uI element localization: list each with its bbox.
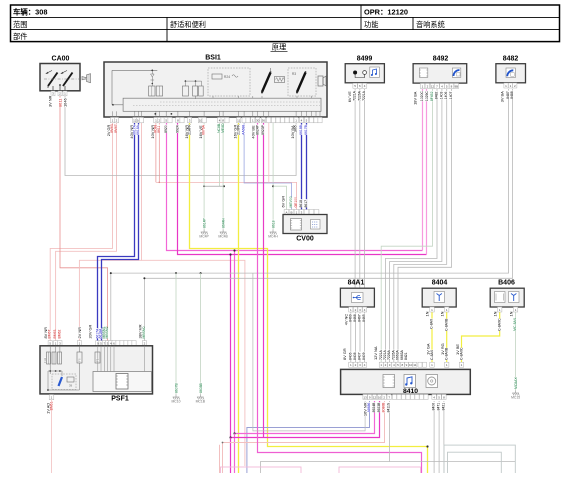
svg-text:音响系统: 音响系统 — [416, 20, 445, 29]
title 原理 — [271, 43, 288, 52]
svg-text:8F452: 8F452 — [430, 91, 434, 101]
svg-text:1046: 1046 — [63, 98, 68, 107]
wire 84A1 pin3 to 8410 — [359, 311, 361, 362]
CV00 wire labels — [280, 196, 308, 208]
svg-text:8469: 8469 — [348, 314, 352, 322]
svg-text:BSI1: BSI1 — [205, 55, 221, 62]
svg-text:C-8AXB: C-8AXB — [444, 318, 448, 331]
svg-text:6V VE: 6V VE — [347, 91, 352, 102]
8410 top labels — [342, 343, 464, 360]
connector icon B406 — [495, 292, 506, 303]
svg-text:8406: 8406 — [348, 352, 352, 360]
svg-text:F1: F1 — [96, 358, 100, 362]
wire CV00 6V GR feed — [272, 123, 274, 230]
svg-text:11: 11 — [237, 119, 240, 123]
svg-text:1N: 1N — [425, 311, 430, 316]
bottom speaker box pink 1 — [221, 467, 302, 477]
svg-text:8923P: 8923P — [261, 124, 265, 135]
wire green 8F452 8492 to 8410 — [381, 89, 432, 362]
wire blue 6617B BSI1 to CV00 — [306, 123, 308, 210]
wire B406 antenna ground — [515, 310, 517, 391]
cd icon 8410 — [426, 375, 438, 388]
steering column control 8482 — [496, 56, 526, 83]
svg-text:A8686: A8686 — [367, 402, 371, 412]
svg-text:8618: 8618 — [272, 220, 276, 228]
svg-text:21XPK: 21XPK — [236, 124, 240, 135]
wire magenta 8923P BSI1 to bottom — [263, 123, 265, 438]
PSF1 inner module — [93, 372, 152, 392]
svg-text:PSF1: PSF1 — [111, 396, 129, 403]
svg-text:1403: 1403 — [439, 92, 443, 100]
wire 8M67 BSI1 to PSF1 — [56, 123, 117, 341]
wire gray NC8B to ground MC4P — [219, 123, 221, 186]
84A1 pins — [349, 307, 367, 312]
wire A8686 blue 8410 to bottom — [247, 401, 370, 473]
wire gray 8492 to 8410 d — [398, 89, 452, 362]
svg-text:C-8AXC: C-8AXC — [497, 318, 501, 331]
header table — [11, 5, 560, 42]
svg-text:范围: 范围 — [13, 20, 27, 29]
8482 pins — [504, 83, 517, 88]
svg-text:功能: 功能 — [364, 20, 378, 29]
wire to ground MC10 — [175, 272, 177, 274]
svg-text:11: 11 — [413, 363, 416, 367]
svg-text:8408: 8408 — [353, 352, 357, 360]
svg-text:R3: R3 — [292, 72, 296, 76]
svg-text:12: 12 — [373, 395, 377, 399]
CA00 wire labels — [48, 95, 68, 107]
svg-text:1N: 1N — [508, 311, 513, 316]
body controller BSI1 — [104, 55, 327, 118]
svg-text:OPR：12120: OPR：12120 — [364, 7, 408, 16]
svg-text:8624P: 8624P — [255, 124, 259, 135]
antenna amplifier 8404 — [422, 280, 456, 308]
wire gray 8492 to 8410 a — [385, 89, 437, 362]
svg-text:8644H: 8644H — [222, 217, 226, 228]
wire pale red branch — [219, 445, 221, 473]
svg-text:部件: 部件 — [13, 32, 27, 41]
usb icon 84A1 — [352, 293, 364, 303]
svg-text:8411S: 8411S — [387, 402, 391, 412]
wire gray bottom horizontal — [390, 461, 516, 463]
svg-text:8618: 8618 — [299, 200, 303, 208]
svg-text:MC4H: MC4H — [268, 235, 278, 239]
wire yellow 21APK — [190, 123, 428, 473]
svg-text:30: 30 — [256, 119, 260, 123]
switch contact 2 — [297, 73, 306, 93]
svg-text:21APK: 21APK — [187, 124, 191, 135]
junction to ground MC4H — [272, 185, 274, 187]
svg-text:MC8AX: MC8AX — [514, 377, 518, 389]
svg-text:8611: 8611 — [157, 125, 161, 132]
8410 bottom labels — [363, 402, 446, 416]
svg-text:B406: B406 — [498, 280, 515, 287]
wire yellow 21XPK — [238, 123, 240, 473]
wire magenta 8624P BSI1 to bottom — [258, 123, 422, 473]
antenna icon B406 — [509, 292, 520, 303]
svg-text:8924B: 8924B — [372, 402, 376, 413]
svg-text:车辆：308: 车辆：308 — [13, 7, 48, 16]
wire pale pink stub 268.8 — [268, 123, 270, 182]
ground MC4P — [201, 230, 208, 235]
wire 8487 8482 to PSF1 — [111, 89, 509, 341]
svg-text:7226A: 7226A — [357, 90, 361, 101]
bottom right box gray outer — [444, 445, 515, 475]
svg-text:C-8AX: C-8AX — [430, 318, 434, 329]
svg-text:8421: 8421 — [441, 403, 445, 411]
wire blue 6617A BSI1 to PSF1 — [98, 123, 135, 341]
svg-text:10: 10 — [378, 395, 382, 399]
svg-text:1N: 1N — [492, 311, 497, 316]
svg-text:9924: 9924 — [176, 125, 180, 133]
antenna icon 8404 — [434, 292, 445, 303]
svg-text:39: 39 — [69, 384, 73, 388]
wire gray 8492 to 8410 c — [394, 89, 447, 362]
resistor PSF1 — [67, 377, 74, 382]
8492 wire labels — [413, 91, 453, 105]
ground MC4H — [270, 230, 277, 235]
svg-text:MBSM2: MBSM2 — [105, 326, 109, 338]
8410 bottom pins — [363, 394, 446, 399]
wire magenta 8410 to bottom a — [235, 401, 375, 434]
wire 84A1 pin2 to 8410 — [354, 311, 356, 362]
wire red horizontal to CV00 OE100 — [155, 123, 157, 182]
svg-text:MEV00: MEV00 — [289, 196, 293, 207]
wire gray 8410 to bottom — [261, 401, 390, 473]
svg-text:OE100: OE100 — [294, 197, 298, 208]
svg-text:8607B: 8607B — [175, 382, 179, 393]
relay PSF1 dashed — [52, 374, 76, 390]
svg-text:A: A — [285, 210, 287, 214]
CD changer connector CV00 — [283, 210, 327, 243]
wire gray 8492 to 8410 b — [390, 89, 442, 362]
ignition switch CA00 — [40, 56, 88, 91]
ground bus — [204, 185, 224, 187]
wire 8M63 BSI1 to PSF1 — [50, 123, 112, 341]
svg-text:F6: F6 — [78, 358, 82, 362]
svg-text:C-8AXB: C-8AXB — [445, 347, 449, 360]
svg-text:B: B — [290, 210, 292, 214]
svg-text:F32: F32 — [43, 357, 47, 363]
svg-text:20V GR: 20V GR — [87, 324, 92, 338]
radio head unit 8410 — [341, 369, 471, 395]
coax 8404 pin2 to 8410 1V RG — [446, 310, 448, 362]
steering icon 8492 — [452, 68, 461, 77]
svg-text:8086B: 8086B — [382, 402, 386, 413]
relay box 2 dashed — [288, 68, 316, 96]
svg-text:8614P: 8614P — [203, 217, 207, 228]
ground MC1B — [197, 395, 204, 400]
svg-text:8467: 8467 — [358, 314, 362, 322]
svg-text:10: 10 — [409, 363, 413, 367]
wire blue 6618A BSI1 to PSF1 — [102, 123, 139, 341]
PSF1 bottom pin — [49, 395, 54, 400]
svg-text:MBSM0: MBSM0 — [142, 326, 146, 338]
wire 8422 down — [443, 401, 445, 473]
svg-text:3V NR: 3V NR — [48, 95, 53, 107]
svg-text:MC4B: MC4B — [218, 235, 228, 239]
svg-text:2V NR: 2V NR — [77, 327, 82, 339]
svg-text:3V BA: 3V BA — [500, 91, 505, 102]
svg-text:18V BA: 18V BA — [413, 91, 418, 105]
B406 wire labels — [492, 311, 517, 331]
svg-text:CA00: CA00 — [52, 56, 70, 63]
steering icon 8482 — [506, 68, 515, 78]
8499 pins — [353, 83, 367, 88]
bottom speaker box pink 2 — [339, 467, 421, 477]
ground MC10 — [173, 395, 180, 400]
svg-text:8409: 8409 — [362, 352, 366, 360]
svg-text:8V GR: 8V GR — [342, 348, 347, 360]
svg-text:12: 12 — [431, 84, 435, 88]
BSI1 pin row — [110, 117, 322, 122]
wire ground MC4P — [203, 123, 205, 230]
music note icon 8499 — [370, 67, 380, 78]
svg-text:8468: 8468 — [353, 314, 357, 322]
svg-text:8421: 8421 — [404, 352, 408, 360]
wire 1046 CA00 to BSI1 1865 — [65, 96, 296, 176]
svg-text:13: 13 — [363, 395, 367, 399]
BSI1 wire labels — [106, 123, 308, 139]
svg-text:MC1B: MC1B — [196, 400, 206, 404]
usb box 84A1 — [340, 280, 374, 308]
svg-text:ME8D: ME8D — [221, 123, 225, 133]
svg-text:9B: 9B — [454, 84, 458, 88]
wire to ground MC1B — [200, 272, 202, 274]
8404 wire labels — [425, 311, 449, 331]
resistor — [275, 77, 285, 83]
svg-text:MC15: MC15 — [511, 396, 520, 400]
PSF1 bottom labels — [45, 401, 53, 413]
svg-text:C-8AX: C-8AX — [430, 349, 434, 360]
svg-text:1020C: 1020C — [420, 91, 424, 102]
svg-text:8499: 8499 — [357, 56, 373, 63]
svg-text:6618B: 6618B — [299, 124, 303, 135]
connector icon 8492 — [419, 68, 427, 77]
svg-text:1865: 1865 — [294, 125, 298, 133]
svg-text:原理: 原理 — [272, 43, 286, 52]
svg-text:8920: 8920 — [164, 125, 168, 133]
svg-text:BM62: BM62 — [57, 330, 61, 339]
svg-text:AA688: AA688 — [242, 125, 246, 135]
svg-text:84A1: 84A1 — [348, 280, 365, 287]
engine fuse box PSF1 — [40, 341, 153, 403]
svg-text:R24: R24 — [224, 75, 230, 79]
wire ground MC4B — [222, 123, 224, 230]
wire magenta net2 — [178, 123, 427, 255]
svg-text:8482: 8482 — [435, 92, 439, 100]
wire 7226A 8499 to 84A1 — [359, 89, 361, 288]
svg-text:CV00: CV00 — [296, 236, 314, 243]
wire 1V AD PSF1 down — [51, 400, 53, 473]
CA00 pins — [51, 91, 67, 96]
svg-text:8482: 8482 — [503, 56, 519, 63]
wire pink 2V NR to PSF1 — [79, 123, 141, 341]
wire 84A1 pin1 to 8410 — [350, 311, 352, 362]
ground MC15 — [512, 391, 519, 396]
ground MC4B — [220, 230, 227, 235]
svg-text:6618A: 6618A — [136, 124, 140, 135]
8404 pins — [430, 307, 449, 312]
svg-text:36: 36 — [262, 119, 266, 123]
svg-text:1N: 1N — [439, 311, 444, 316]
svg-text:1406: 1406 — [444, 92, 448, 100]
display unit 8492 — [413, 56, 467, 84]
coax B406 to 8410 1V BE — [462, 310, 500, 362]
svg-text:BM61: BM61 — [50, 401, 54, 410]
8482 wire labels — [500, 91, 515, 103]
switch contact 1 — [262, 73, 271, 93]
svg-text:6V GR: 6V GR — [280, 196, 285, 208]
key symbol — [82, 74, 91, 83]
music icon 8410 — [404, 375, 416, 388]
wire magenta net1 — [167, 123, 423, 251]
svg-text:8923B: 8923B — [377, 402, 381, 413]
svg-text:8465: 8465 — [362, 314, 366, 322]
connector icon 8410 — [383, 375, 395, 388]
wire magenta 8410 to bottom b — [231, 401, 380, 438]
svg-text:舒适和便利: 舒适和便利 — [170, 20, 206, 29]
wire red 8611 stub — [158, 123, 160, 182]
microphone 8499 — [345, 56, 384, 83]
wire gray 8410 pin13 loop — [253, 274, 365, 431]
svg-text:6676A: 6676A — [202, 124, 206, 135]
B406 pins — [498, 307, 518, 312]
wire 7221A-2 8499 to 84A1 — [364, 89, 366, 288]
svg-text:8410: 8410 — [403, 388, 418, 395]
svg-text:MC10: MC10 — [171, 400, 180, 404]
wire 8611 CA00 to PSF1 — [60, 96, 108, 341]
wire pale red 8410 to bottom — [223, 401, 385, 473]
svg-text:8406: 8406 — [432, 403, 436, 411]
svg-text:8404: 8404 — [432, 280, 448, 287]
svg-text:8488: 8488 — [510, 91, 514, 99]
wire 7221A 8499 to 84A1 — [354, 89, 356, 288]
buzzer — [318, 76, 323, 86]
svg-text:8471: 8471 — [437, 403, 441, 411]
connector icon CV00 — [291, 219, 302, 231]
8499 wire labels — [347, 90, 366, 102]
wire 8406 down — [433, 401, 435, 473]
PSF1 wire labels top — [43, 324, 146, 338]
cd icon CV00 — [311, 220, 321, 230]
svg-text:1029C: 1029C — [425, 91, 429, 102]
wire 8421 down — [438, 401, 440, 473]
svg-text:1407: 1407 — [449, 92, 453, 100]
svg-text:6617B: 6617B — [304, 124, 308, 135]
svg-text:C-8AXC: C-8AXC — [460, 347, 464, 360]
8492 pins — [420, 83, 458, 88]
8410 top pins — [349, 362, 464, 367]
84A1 wire labels — [344, 314, 367, 326]
coax 8404 pin1 to 8410 1V GA — [431, 310, 433, 362]
svg-text:8617: 8617 — [304, 200, 308, 208]
wire AA688 to CV00 — [244, 123, 291, 210]
svg-text:8608B: 8608B — [199, 382, 203, 393]
svg-text:8407: 8407 — [358, 352, 362, 360]
svg-text:MC4P: MC4P — [199, 235, 209, 239]
bottom right box gray inner — [448, 452, 502, 475]
svg-text:7221A: 7221A — [353, 90, 357, 101]
wire blue 6618B BSI1 to CV00 — [301, 123, 303, 210]
wire 84A1 pin4 to 8410 — [364, 311, 366, 362]
wire pale pink branch right — [142, 260, 245, 466]
svg-text:BM67: BM67 — [48, 330, 52, 339]
roof antenna B406 — [490, 280, 524, 308]
wire 8488 8482 to PSF1 — [144, 89, 512, 341]
svg-text:MC-8AX: MC-8AX — [513, 317, 517, 331]
svg-text:7221A: 7221A — [362, 90, 366, 101]
svg-text:8492: 8492 — [433, 56, 449, 63]
svg-text:8M67: 8M67 — [114, 124, 118, 133]
svg-text:12V NA: 12V NA — [373, 346, 378, 360]
